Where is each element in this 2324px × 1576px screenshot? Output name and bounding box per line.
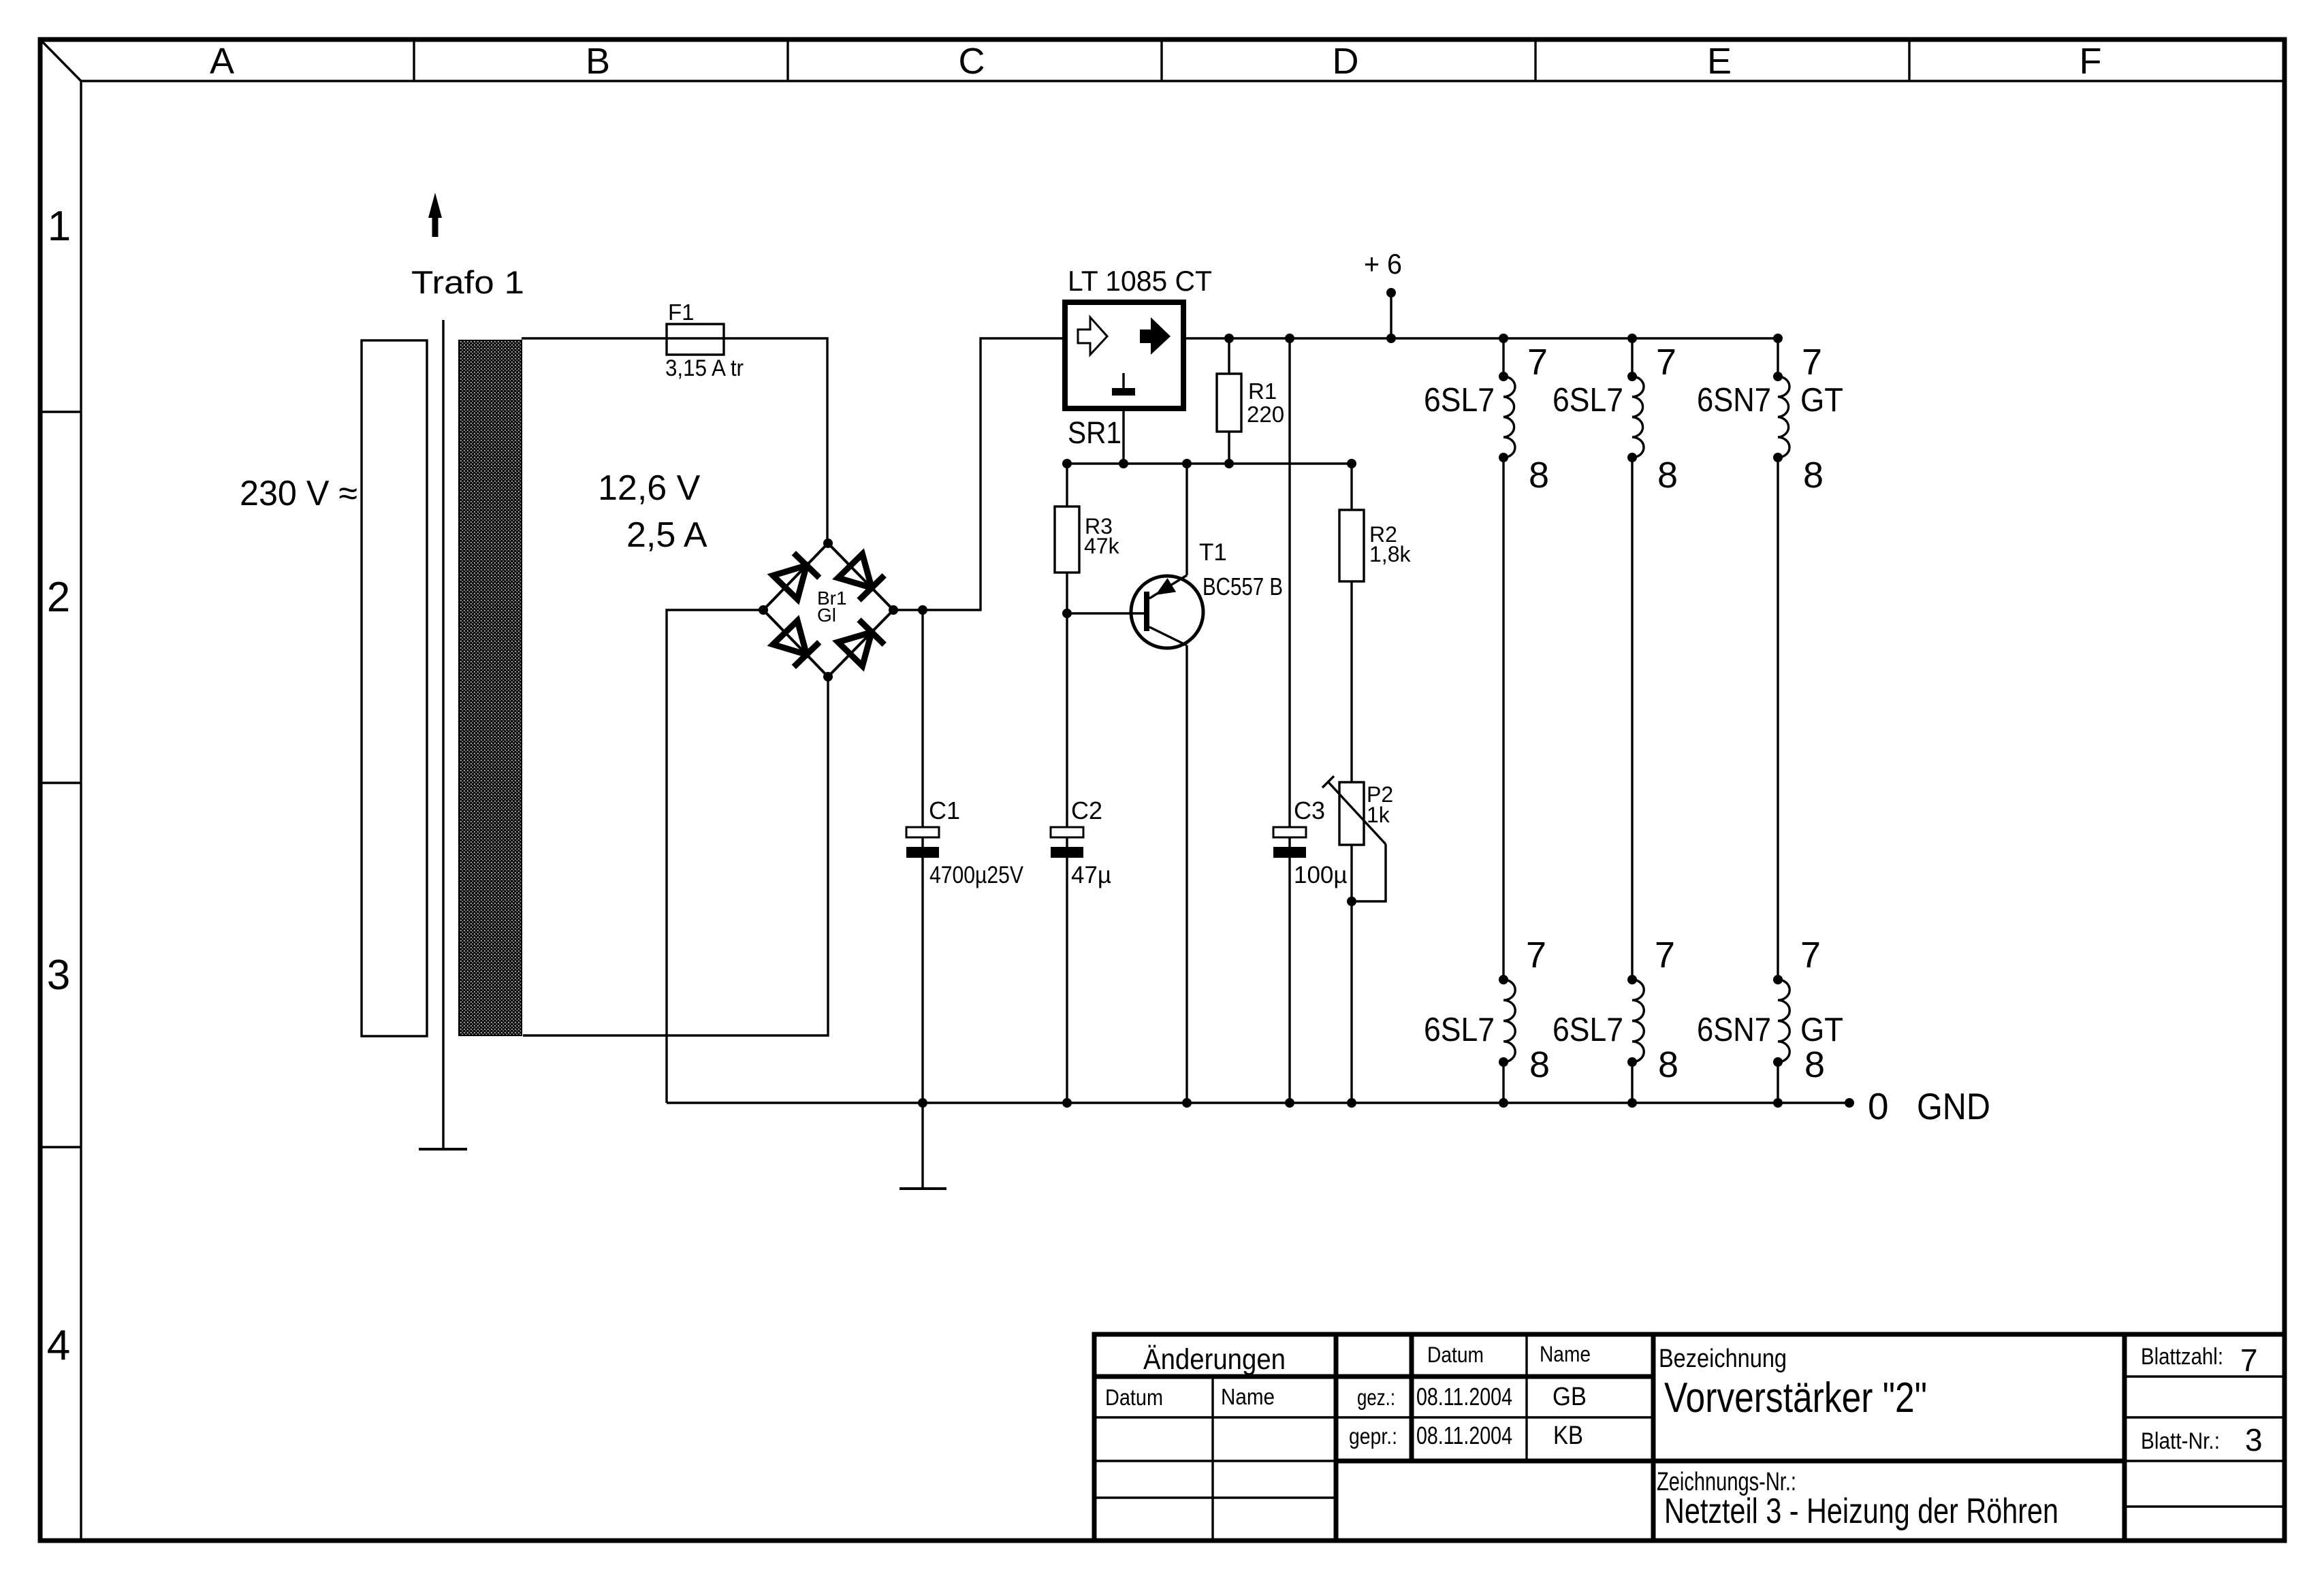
svg-text:7: 7 bbox=[1526, 935, 1546, 976]
svg-text:8: 8 bbox=[1803, 455, 1824, 496]
svg-text:8: 8 bbox=[1529, 1044, 1550, 1085]
svg-text:E: E bbox=[1707, 41, 1732, 82]
svg-text:Bezeichnung: Bezeichnung bbox=[1659, 1345, 1787, 1373]
svg-text:6SN7: 6SN7 bbox=[1697, 382, 1771, 419]
svg-text:GT: GT bbox=[1800, 382, 1843, 419]
svg-text:KB: KB bbox=[1553, 1421, 1583, 1450]
svg-text:Blattzahl:: Blattzahl: bbox=[2141, 1344, 2223, 1370]
svg-text:GT: GT bbox=[1800, 1012, 1843, 1048]
svg-text:gepr.:: gepr.: bbox=[1349, 1424, 1397, 1449]
transformer phase arrow bbox=[428, 193, 442, 237]
wire heater column 2 bbox=[1631, 338, 1633, 1103]
svg-text:Datum: Datum bbox=[1105, 1385, 1163, 1410]
wire P2 bottom to ground rail bbox=[1350, 845, 1352, 1103]
junction P2 wiper tap bbox=[1347, 897, 1356, 906]
svg-text:7: 7 bbox=[1656, 342, 1676, 383]
svg-text:C1: C1 bbox=[929, 797, 960, 824]
svg-text:Name: Name bbox=[1540, 1342, 1591, 1366]
svg-text:230 V ≈: 230 V ≈ bbox=[240, 474, 357, 513]
svg-text:08.11.2004: 08.11.2004 bbox=[1416, 1383, 1512, 1411]
svg-text:2,5 A: 2,5 A bbox=[626, 515, 707, 555]
junction ground rail / T1 collector bbox=[1182, 1098, 1192, 1108]
wire R3/C2 node to T1 base bbox=[1067, 612, 1144, 614]
svg-text:220: 220 bbox=[1247, 402, 1284, 427]
transformer Trafo 1 secondary winding bbox=[459, 340, 522, 1035]
svg-text:4: 4 bbox=[47, 1322, 70, 1369]
capacitor C1 bbox=[906, 610, 939, 1103]
regulator U1 LT1085 box bbox=[1065, 302, 1183, 408]
junction ADJ rail / R1 bbox=[1224, 459, 1234, 468]
svg-text:BC557 B: BC557 B bbox=[1203, 573, 1283, 600]
regulator ground pin symbol bbox=[1112, 373, 1135, 396]
wire bridge minus to ground rail bbox=[667, 610, 763, 1103]
svg-text:R1: R1 bbox=[1248, 379, 1277, 404]
junction R1 top on +6 rail bbox=[1224, 334, 1234, 343]
svg-text:GB: GB bbox=[1553, 1383, 1587, 1411]
svg-text:F1: F1 bbox=[668, 300, 695, 325]
wire ADJ rail bbox=[1067, 462, 1352, 464]
svg-text:B: B bbox=[586, 41, 610, 82]
svg-text:F: F bbox=[2080, 41, 2102, 82]
svg-text:1: 1 bbox=[48, 203, 71, 250]
junction heater column 3 top rail bbox=[1773, 334, 1783, 343]
svg-text:6SL7: 6SL7 bbox=[1553, 1012, 1623, 1048]
svg-text:4700µ25V: 4700µ25V bbox=[929, 862, 1024, 888]
inductor heater 6SL7 (top row 1) bbox=[1499, 372, 1515, 462]
junction ground rail / P2 bbox=[1347, 1098, 1356, 1108]
inductor heater 6SN7 (bottom row 3) bbox=[1773, 975, 1789, 1067]
junction ground rail / heater column 2 bbox=[1627, 1098, 1637, 1108]
svg-text:8: 8 bbox=[1657, 455, 1678, 496]
junction ground rail / heater column 3 bbox=[1773, 1098, 1783, 1108]
junction ground rail / C3 bbox=[1285, 1098, 1294, 1108]
svg-text:1,8k: 1,8k bbox=[1369, 542, 1411, 566]
svg-text:C: C bbox=[959, 41, 985, 82]
node bridge AC bottom bbox=[823, 672, 833, 681]
earth ground symbol bbox=[900, 1103, 946, 1189]
regulator output arrow (filled) bbox=[1140, 317, 1171, 355]
svg-text:0: 0 bbox=[1868, 1085, 1889, 1127]
svg-text:SR1: SR1 bbox=[1068, 415, 1121, 450]
svg-text:T1: T1 bbox=[1199, 539, 1227, 566]
diode D2 (AC top to plus) bbox=[838, 554, 885, 600]
svg-text:47k: 47k bbox=[1084, 534, 1120, 558]
wire +6 output rail bbox=[1183, 337, 1778, 339]
title block grid bbox=[1094, 1334, 2285, 1541]
svg-text:8: 8 bbox=[1804, 1044, 1825, 1085]
diode D3 (minus to AC bottom) bbox=[773, 621, 819, 667]
capacitor C3 bbox=[1273, 338, 1306, 1103]
svg-text:LT 1085 CT: LT 1085 CT bbox=[1068, 265, 1212, 297]
svg-text:47µ: 47µ bbox=[1071, 862, 1111, 888]
svg-text:6SL7: 6SL7 bbox=[1424, 382, 1495, 419]
junction ADJ rail / R2 bbox=[1347, 459, 1356, 468]
inductor heater 6SN7 (top row 3) bbox=[1773, 372, 1789, 462]
junction +6 stub on rail bbox=[1386, 334, 1396, 343]
wire +6 node stub bbox=[1390, 293, 1392, 338]
svg-text:7: 7 bbox=[1655, 935, 1675, 976]
svg-text:Gl: Gl bbox=[817, 605, 836, 626]
svg-text:8: 8 bbox=[1529, 455, 1549, 496]
svg-text:GND: GND bbox=[1917, 1085, 1990, 1127]
svg-text:3: 3 bbox=[2245, 1422, 2263, 1458]
transformer core earth bar bbox=[419, 1148, 467, 1151]
svg-text:Trafo 1: Trafo 1 bbox=[411, 264, 524, 300]
svg-text:Blatt-Nr.:: Blatt-Nr.: bbox=[2141, 1428, 2220, 1454]
svg-text:gez.:: gez.: bbox=[1357, 1385, 1395, 1410]
svg-text:Änderungen: Änderungen bbox=[1143, 1343, 1286, 1376]
svg-text:Name: Name bbox=[1221, 1384, 1275, 1409]
svg-text:7: 7 bbox=[1800, 935, 1821, 976]
svg-text:+ 6: + 6 bbox=[1364, 248, 1402, 280]
junction heater column 2 top rail bbox=[1627, 334, 1637, 343]
svg-text:D: D bbox=[1333, 41, 1359, 82]
svg-text:Datum: Datum bbox=[1427, 1342, 1484, 1367]
svg-text:8: 8 bbox=[1658, 1044, 1678, 1085]
junction ground rail / C2 bbox=[1062, 1098, 1072, 1108]
bridge rectifier Br1 diamond bbox=[763, 543, 893, 677]
svg-text:7: 7 bbox=[2240, 1342, 2258, 1378]
resistor R3 bbox=[1055, 464, 1079, 613]
inductor heater 6SL7 (bottom row 1) bbox=[1499, 975, 1515, 1067]
node bridge AC top bbox=[823, 538, 833, 548]
wire heater column 3 bbox=[1777, 338, 1779, 1103]
resistor R1 bbox=[1217, 338, 1241, 464]
wire heater column 1 bbox=[1502, 338, 1504, 1103]
inductor heater 6SL7 (top row 2) bbox=[1627, 372, 1644, 462]
wire P2 wiper to bottom terminal bbox=[1352, 844, 1386, 901]
fuse F1 bbox=[667, 324, 724, 355]
resistor R2 bbox=[1339, 464, 1364, 782]
svg-text:C2: C2 bbox=[1071, 797, 1102, 824]
svg-text:6SL7: 6SL7 bbox=[1424, 1012, 1495, 1048]
junction ground rail / C1 bbox=[918, 1098, 927, 1108]
svg-text:Netzteil 3 - Heizung der Röhre: Netzteil 3 - Heizung der Röhren bbox=[1664, 1492, 2058, 1531]
junction ADJ rail / R3 bbox=[1062, 459, 1072, 468]
node +6 terminal bbox=[1386, 288, 1396, 297]
wire secondary top to fuse F1 and bridge bbox=[522, 338, 827, 543]
wire secondary bottom to bridge AC bottom bbox=[523, 677, 828, 1035]
svg-text:3: 3 bbox=[47, 952, 70, 999]
node bridge DC minus bbox=[759, 605, 768, 615]
junction ADJ rail / T1 emitter bbox=[1182, 459, 1192, 468]
diode D4 (AC bottom to plus) bbox=[838, 620, 885, 666]
svg-text:100µ: 100µ bbox=[1294, 862, 1348, 888]
svg-text:12,6 V: 12,6 V bbox=[598, 468, 701, 508]
svg-text:A: A bbox=[210, 41, 234, 82]
junction R3/C2/base node bbox=[1062, 609, 1072, 618]
junction C3 top on +6 rail bbox=[1285, 334, 1294, 343]
svg-text:6SL7: 6SL7 bbox=[1553, 382, 1623, 419]
svg-text:C3: C3 bbox=[1294, 797, 1325, 824]
junction ground rail / 0 GND terminal bbox=[1845, 1098, 1854, 1108]
transformer core bbox=[442, 320, 444, 1149]
svg-text:3,15 A tr: 3,15 A tr bbox=[665, 355, 744, 381]
wire regulator ADJ pin bbox=[1122, 408, 1124, 464]
diode D1 (minus to AC top) bbox=[773, 553, 819, 599]
regulator input arrow (open) bbox=[1078, 317, 1107, 355]
transistor T1 bbox=[1131, 464, 1203, 648]
junction heater column 1 top rail bbox=[1499, 334, 1508, 343]
wire bridge plus to regulator input bbox=[893, 338, 1065, 610]
capacitor C2 bbox=[1051, 613, 1083, 1103]
junction C1 tap on plus wire bbox=[918, 605, 927, 615]
inductor heater 6SL7 (bottom row 2) bbox=[1627, 975, 1644, 1067]
svg-text:1k: 1k bbox=[1367, 803, 1390, 827]
svg-text:Vorverstärker "2": Vorverstärker "2" bbox=[1664, 1374, 1927, 1421]
svg-text:7: 7 bbox=[1802, 342, 1822, 383]
svg-text:7: 7 bbox=[1527, 342, 1548, 383]
svg-text:6SN7: 6SN7 bbox=[1697, 1012, 1771, 1048]
svg-text:2: 2 bbox=[47, 574, 70, 621]
svg-text:08.11.2004: 08.11.2004 bbox=[1416, 1421, 1512, 1449]
wire ground rail bbox=[667, 1101, 1849, 1104]
wire T1 collector to ground rail bbox=[1185, 645, 1188, 1103]
junction ADJ rail / regulator ADJ pin bbox=[1119, 459, 1128, 468]
node bridge DC plus bbox=[889, 605, 898, 615]
transformer Trafo 1 primary winding bbox=[362, 340, 427, 1036]
junction ground rail / heater column 1 bbox=[1499, 1098, 1508, 1108]
potentiometer P2 bbox=[1322, 776, 1386, 845]
